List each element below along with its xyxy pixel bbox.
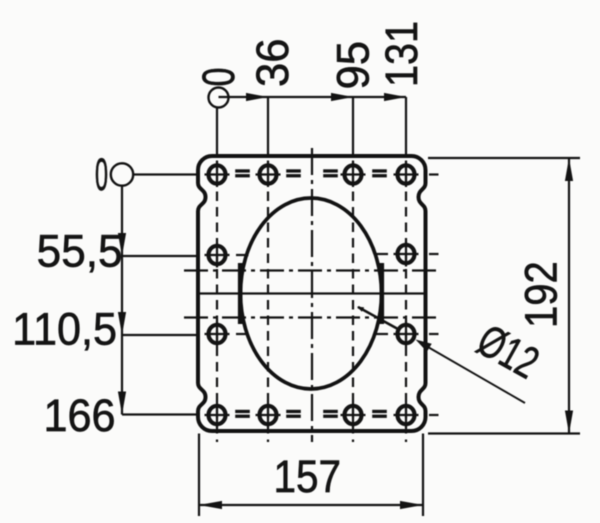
extension line top right — [428, 157, 580, 159]
svg-text:166: 166 — [43, 391, 115, 441]
arrow to 36 — [246, 93, 268, 101]
arrow to 95 — [331, 93, 353, 101]
= mark bottom row c2-c3 right — [323, 410, 338, 413]
bottom dimension 157 group — [199, 434, 423, 517]
svg-text:157: 157 — [274, 452, 342, 502]
arrow right 157 — [400, 501, 423, 509]
seam line — [199, 292, 425, 294]
arrow up 192 — [565, 158, 573, 181]
arrow down 192 — [565, 411, 573, 434]
dimension line 192 — [568, 158, 570, 434]
= mark bottom row c3-c4 — [372, 410, 387, 413]
top origin circle — [209, 88, 229, 108]
centerline horizontal upper — [184, 269, 438, 271]
hole H10 bottom row — [256, 403, 281, 428]
dash right of H7 — [236, 333, 249, 335]
svg-text:192: 192 — [516, 261, 567, 328]
hole column line c2 — [267, 97, 269, 156]
dash right of H4 — [429, 173, 439, 175]
holes: each bolt hole is ring + crosshair — [205, 162, 419, 428]
= mark top row c2-c3 right — [323, 169, 338, 172]
hole column line c1 — [216, 108, 218, 157]
arrow to 55,5 — [118, 233, 126, 256]
left origin circle — [111, 163, 133, 185]
hole H8 mid-right lower — [394, 322, 419, 347]
left dimension line — [121, 185, 123, 415]
dash right of H8 — [429, 333, 439, 335]
hole H3 top row — [341, 162, 366, 187]
arrow left 157 — [199, 501, 222, 509]
= mark top row c2-c3 left — [286, 169, 301, 172]
hole column line c4 — [405, 97, 407, 156]
dash left of H6 — [375, 253, 388, 255]
hole H4 top row — [394, 162, 419, 187]
svg-text:0: 0 — [95, 150, 108, 200]
dash left of H8 — [375, 333, 388, 335]
leader arrowhead at hole — [416, 340, 432, 352]
oval side wall left — [238, 263, 243, 324]
arrow to 110,5 — [118, 312, 126, 335]
plate outline — [198, 156, 426, 431]
= mark top row c3-c4 — [372, 169, 387, 172]
connector row 166 — [122, 413, 197, 415]
dash right of H12 — [429, 414, 439, 416]
short centerline dashes between holes (= marks) — [235, 169, 387, 418]
extension line bottom left — [198, 434, 200, 517]
left ordinate dimension group — [111, 163, 197, 414]
hole H9 bottom row — [205, 403, 230, 428]
centerline horizontal lower — [184, 316, 438, 318]
dimension line 157 — [199, 504, 423, 506]
dash right of H6 — [429, 253, 439, 255]
svg-text:110,5: 110,5 — [12, 305, 117, 355]
top ordinate dimension group — [209, 88, 407, 108]
short row-centerline dashes at plate edges — [236, 175, 439, 416]
hole H6 mid-right upper — [394, 242, 419, 267]
svg-text:36: 36 — [248, 38, 298, 87]
arrow to 131 — [384, 93, 406, 101]
= mark bottom row c2-c3 left — [286, 410, 301, 413]
hole H11 bottom row — [341, 403, 366, 428]
svg-text:131: 131 — [377, 21, 427, 87]
arrow to 166 — [118, 392, 126, 415]
= mark top row c1-c2 — [235, 169, 250, 172]
extension line bottom right — [428, 432, 580, 434]
hole H12 bottom row — [394, 403, 419, 428]
center oval opening — [241, 198, 382, 389]
leader start barb — [357, 307, 364, 312]
hole H2 top row — [256, 162, 281, 187]
hole H7 mid-left lower — [205, 322, 230, 347]
dash right of H5 — [236, 254, 249, 256]
connector row 0 — [133, 173, 198, 175]
top dimension line — [219, 96, 407, 98]
centerline vertical — [311, 148, 313, 442]
svg-text:0: 0 — [195, 67, 245, 86]
svg-text:55,5: 55,5 — [37, 227, 123, 276]
hole column line c3 — [352, 97, 354, 156]
= mark bottom row c1-c2 — [235, 410, 250, 413]
svg-text:95: 95 — [329, 41, 379, 90]
connector row 55,5 — [122, 255, 197, 257]
oval side wall right — [379, 263, 384, 324]
connector row 110,5 — [122, 334, 197, 336]
hole H1 top row — [205, 162, 230, 187]
hole H5 mid-left upper — [205, 243, 230, 268]
extension line bottom right2 — [422, 434, 424, 517]
right dimension 192 group — [428, 158, 580, 434]
leader line for hole diameter — [358, 307, 397, 329]
